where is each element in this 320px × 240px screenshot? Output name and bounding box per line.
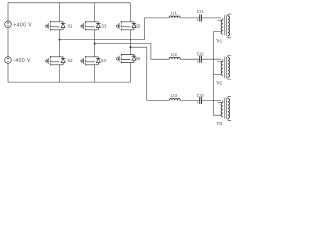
svg-text:S1: S1 xyxy=(68,24,74,29)
wire leg2 source xyxy=(94,65,96,82)
inductor Lr2 xyxy=(169,57,180,59)
svg-text:S6: S6 xyxy=(135,56,141,61)
wire leg1 drain xyxy=(59,3,61,22)
svg-text:+: + xyxy=(196,18,199,23)
svg-text:Tr2: Tr2 xyxy=(216,80,223,85)
wire star bus xyxy=(213,32,221,116)
source V2 -400V xyxy=(5,57,12,64)
capacitor Cr1 xyxy=(200,15,202,22)
wire xyxy=(180,99,200,101)
svg-text:Lr2: Lr2 xyxy=(171,52,178,57)
inductor Lr3 xyxy=(169,98,180,100)
svg-text:Cr1: Cr1 xyxy=(197,9,204,14)
transformer Tr1 xyxy=(217,14,231,38)
transformer Tr2 xyxy=(217,56,231,80)
inductor Lr1 xyxy=(169,16,180,18)
node leg2 midpoint xyxy=(94,43,96,45)
wire xyxy=(180,58,200,60)
transistor S1 xyxy=(46,21,66,31)
wire leg1 source xyxy=(59,65,61,82)
wire leg1 mid xyxy=(59,30,61,57)
transistor S6 xyxy=(117,54,137,64)
svg-text:S4: S4 xyxy=(101,58,107,63)
wire leg3 source xyxy=(129,63,131,83)
wire xyxy=(7,63,9,82)
wire xyxy=(201,17,221,19)
bottom rail xyxy=(8,81,130,83)
svg-text:+: + xyxy=(196,59,199,64)
svg-text:Tr3: Tr3 xyxy=(216,121,223,126)
svg-text:Cr3: Cr3 xyxy=(197,93,204,98)
wire xyxy=(7,28,9,57)
transformer Tr3 xyxy=(217,97,231,121)
source V1 +400V xyxy=(5,21,12,28)
node leg1 midpoint xyxy=(59,39,61,41)
transistor S5 xyxy=(117,21,137,31)
svg-text:+400 V: +400 V xyxy=(13,22,32,28)
wire leg3 mid xyxy=(129,30,131,54)
svg-text:-400 V: -400 V xyxy=(13,58,31,64)
wire leg2 mid xyxy=(94,30,96,57)
wire leg2 drain xyxy=(94,3,96,22)
node leg3 midpoint xyxy=(129,46,131,48)
wire xyxy=(201,58,221,60)
svg-text:S2: S2 xyxy=(68,58,74,63)
wire phase A xyxy=(60,18,170,40)
svg-text:S5: S5 xyxy=(135,24,141,29)
transistor S2 xyxy=(46,56,66,66)
wire phase B xyxy=(95,44,170,60)
transistor S3 xyxy=(81,21,101,31)
capacitor Cr3 xyxy=(200,97,202,104)
wire phase C xyxy=(130,47,169,100)
svg-text:+: + xyxy=(196,100,199,105)
svg-text:Lr3: Lr3 xyxy=(171,93,178,98)
wire leg3 drain xyxy=(129,3,131,22)
top rail xyxy=(8,2,130,4)
svg-text:Tr1: Tr1 xyxy=(216,38,223,43)
transistor S4 xyxy=(81,56,101,66)
capacitor Cr2 xyxy=(200,56,202,63)
svg-text:S3: S3 xyxy=(101,24,107,29)
wire xyxy=(7,3,9,21)
wire xyxy=(201,99,221,101)
svg-text:Lr1: Lr1 xyxy=(171,11,178,16)
wire xyxy=(180,17,200,19)
svg-text:Cr2: Cr2 xyxy=(197,52,204,57)
